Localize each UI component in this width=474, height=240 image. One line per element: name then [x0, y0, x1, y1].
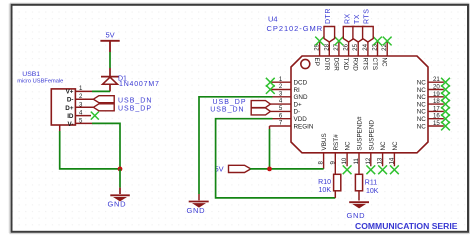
svg-text:14: 14: [388, 157, 395, 164]
svg-text:V+: V+: [66, 89, 74, 96]
svg-text:17: 17: [433, 105, 440, 112]
wire U4 GND down: [199, 97, 273, 194]
svg-text:NC: NC: [417, 101, 427, 108]
svg-text:R10: R10: [318, 179, 331, 186]
U4 left pins 1-7: [270, 76, 314, 131]
svg-text:USB_DN: USB_DN: [118, 97, 152, 104]
svg-text:4: 4: [279, 98, 283, 105]
svg-text:10K: 10K: [319, 187, 332, 194]
svg-text:20: 20: [433, 84, 440, 91]
wire VDD to R10 bottom: [216, 119, 336, 198]
svg-text:ID: ID: [67, 113, 74, 120]
no-connect X U4 pin13: [378, 165, 387, 174]
svg-text:DTR: DTR: [325, 8, 332, 24]
wire 5V to D1: [109, 52, 111, 68]
svg-text:RTS: RTS: [361, 58, 368, 70]
svg-text:NC: NC: [392, 141, 399, 151]
U4 right pins 21-15: [417, 76, 444, 130]
svg-text:D+: D+: [65, 105, 74, 112]
svg-text:SUSPEND: SUSPEND: [368, 120, 375, 151]
svg-text:RST#: RST#: [333, 134, 340, 151]
svg-text:DSR: DSR: [332, 58, 339, 72]
svg-text:VBUS: VBUS: [321, 133, 328, 150]
wire junction down: [119, 169, 121, 188]
net flag TX: [353, 14, 364, 42]
svg-text:DCD: DCD: [294, 80, 308, 87]
svg-text:10K: 10K: [366, 188, 379, 195]
ground GND (R11): [347, 202, 370, 220]
svg-text:9: 9: [329, 161, 336, 165]
svg-text:D-: D-: [67, 97, 74, 104]
svg-text:NC: NC: [417, 94, 427, 101]
svg-text:D+: D+: [294, 101, 303, 108]
svg-text:USB_DP: USB_DP: [212, 99, 246, 106]
svg-text:NC: NC: [381, 58, 388, 68]
svg-text:3: 3: [279, 90, 283, 97]
svg-text:28: 28: [323, 43, 330, 50]
svg-text:GND: GND: [187, 206, 206, 215]
connector USB1: [17, 71, 93, 131]
svg-text:1N4007M7: 1N4007M7: [119, 81, 160, 88]
no-connect X U4 pin29: [315, 37, 324, 46]
svg-text:NC: NC: [417, 123, 427, 130]
no-connect X pin1: [266, 78, 275, 87]
svg-text:V-: V-: [68, 121, 74, 128]
resistor R11: [355, 174, 378, 200]
net flag RTS: [363, 9, 374, 42]
no-connect X U4 pin12: [366, 165, 375, 174]
wire 5V rail to VBUS: [250, 168, 324, 170]
svg-text:micro USBFemale: micro USBFemale: [17, 79, 63, 85]
svg-text:18: 18: [433, 98, 440, 105]
svg-text:NC: NC: [380, 141, 387, 151]
wire USB V+ to diode: [92, 90, 110, 92]
junction: [118, 167, 123, 172]
svg-text:7: 7: [279, 120, 283, 127]
svg-text:5: 5: [279, 105, 283, 112]
svg-text:10: 10: [341, 157, 348, 164]
resistor R10: [318, 174, 341, 198]
svg-text:CTS: CTS: [371, 58, 378, 71]
svg-text:12: 12: [365, 157, 372, 164]
svg-text:GND: GND: [294, 94, 308, 101]
no-connect X U4 pin14: [390, 165, 399, 174]
svg-text:EP: EP: [313, 58, 320, 66]
power flag 5V (mid): [215, 165, 251, 174]
svg-text:USB_DP: USB_DP: [118, 105, 152, 112]
no-connect X U4 pin10: [343, 165, 352, 174]
no-connect X U4 pin22: [383, 37, 392, 46]
wire REGIN down: [269, 126, 271, 129]
svg-text:NC: NC: [417, 87, 427, 94]
svg-text:19: 19: [433, 91, 440, 98]
svg-text:DTR: DTR: [323, 58, 330, 71]
svg-text:RX: RX: [344, 13, 351, 24]
svg-text:REGIN: REGIN: [294, 123, 314, 130]
svg-text:GND: GND: [108, 200, 127, 209]
net flag RX: [343, 13, 354, 42]
svg-text:6: 6: [279, 112, 283, 119]
svg-text:21: 21: [433, 76, 440, 83]
wire USB V- down: [92, 123, 120, 168]
svg-text:CP2102-GMR: CP2102-GMR: [267, 24, 324, 33]
net flag USB_DP (at USB pin 3): [93, 104, 152, 113]
svg-text:GND: GND: [347, 211, 366, 220]
junction 5V rail: [267, 167, 272, 172]
svg-text:2: 2: [279, 83, 283, 90]
svg-text:11: 11: [353, 158, 360, 165]
svg-text:D-: D-: [294, 109, 301, 116]
IC U4 body: [291, 56, 428, 153]
U4 bottom pins 8-14: [318, 116, 399, 174]
diode D1: [101, 68, 160, 92]
svg-text:RXD: RXD: [352, 58, 359, 72]
ground GND (U4 pin3): [187, 202, 209, 215]
svg-text:TX: TX: [354, 14, 361, 24]
svg-text:5V: 5V: [106, 31, 115, 40]
U4 top pins 29-22: [313, 42, 388, 71]
svg-text:26: 26: [343, 43, 350, 50]
svg-text:R11: R11: [365, 180, 377, 187]
svg-text:25: 25: [352, 43, 359, 50]
svg-text:15: 15: [433, 120, 440, 127]
wire USB shell to GND rail: [60, 131, 120, 169]
no-connect X on USB pin 4: [91, 112, 99, 120]
svg-text:SUSPEND#: SUSPEND#: [357, 116, 364, 150]
pin stubs: [60, 91, 94, 131]
pin 1 indicator circle: [301, 59, 310, 68]
svg-text:1: 1: [279, 76, 283, 83]
svg-text:COMMUNICATION SERIE: COMMUNICATION SERIE: [355, 221, 458, 231]
net flag USB_DP (to U4 pin4): [212, 99, 270, 107]
net flag USB_DN (to U4 pin5): [210, 107, 270, 115]
svg-text:RTS: RTS: [364, 9, 371, 24]
ground GND (USB): [108, 195, 130, 208]
svg-text:U4: U4: [268, 15, 278, 24]
power flag 5V (top): [100, 31, 119, 53]
net flag USB_DN (at USB pin 2): [93, 96, 152, 105]
no-connect X pins 21-15: [441, 78, 450, 131]
svg-text:RI: RI: [294, 87, 301, 94]
svg-text:USB1: USB1: [22, 71, 40, 78]
no-connect X pin2: [266, 85, 275, 94]
svg-text:16: 16: [433, 113, 440, 120]
svg-text:TXD: TXD: [342, 58, 349, 71]
no-connect X U4 pin23: [373, 37, 382, 46]
svg-text:13: 13: [377, 157, 384, 164]
svg-text:NC: NC: [417, 116, 427, 123]
svg-text:NC: NC: [417, 80, 427, 87]
svg-text:24: 24: [362, 43, 369, 50]
no-connect X U4 pin27: [335, 37, 344, 46]
net flag DTR: [324, 8, 335, 42]
svg-text:NC: NC: [417, 109, 427, 116]
svg-text:NC: NC: [345, 141, 352, 151]
svg-text:USB_DN: USB_DN: [210, 107, 244, 114]
svg-text:VDD: VDD: [294, 116, 308, 123]
